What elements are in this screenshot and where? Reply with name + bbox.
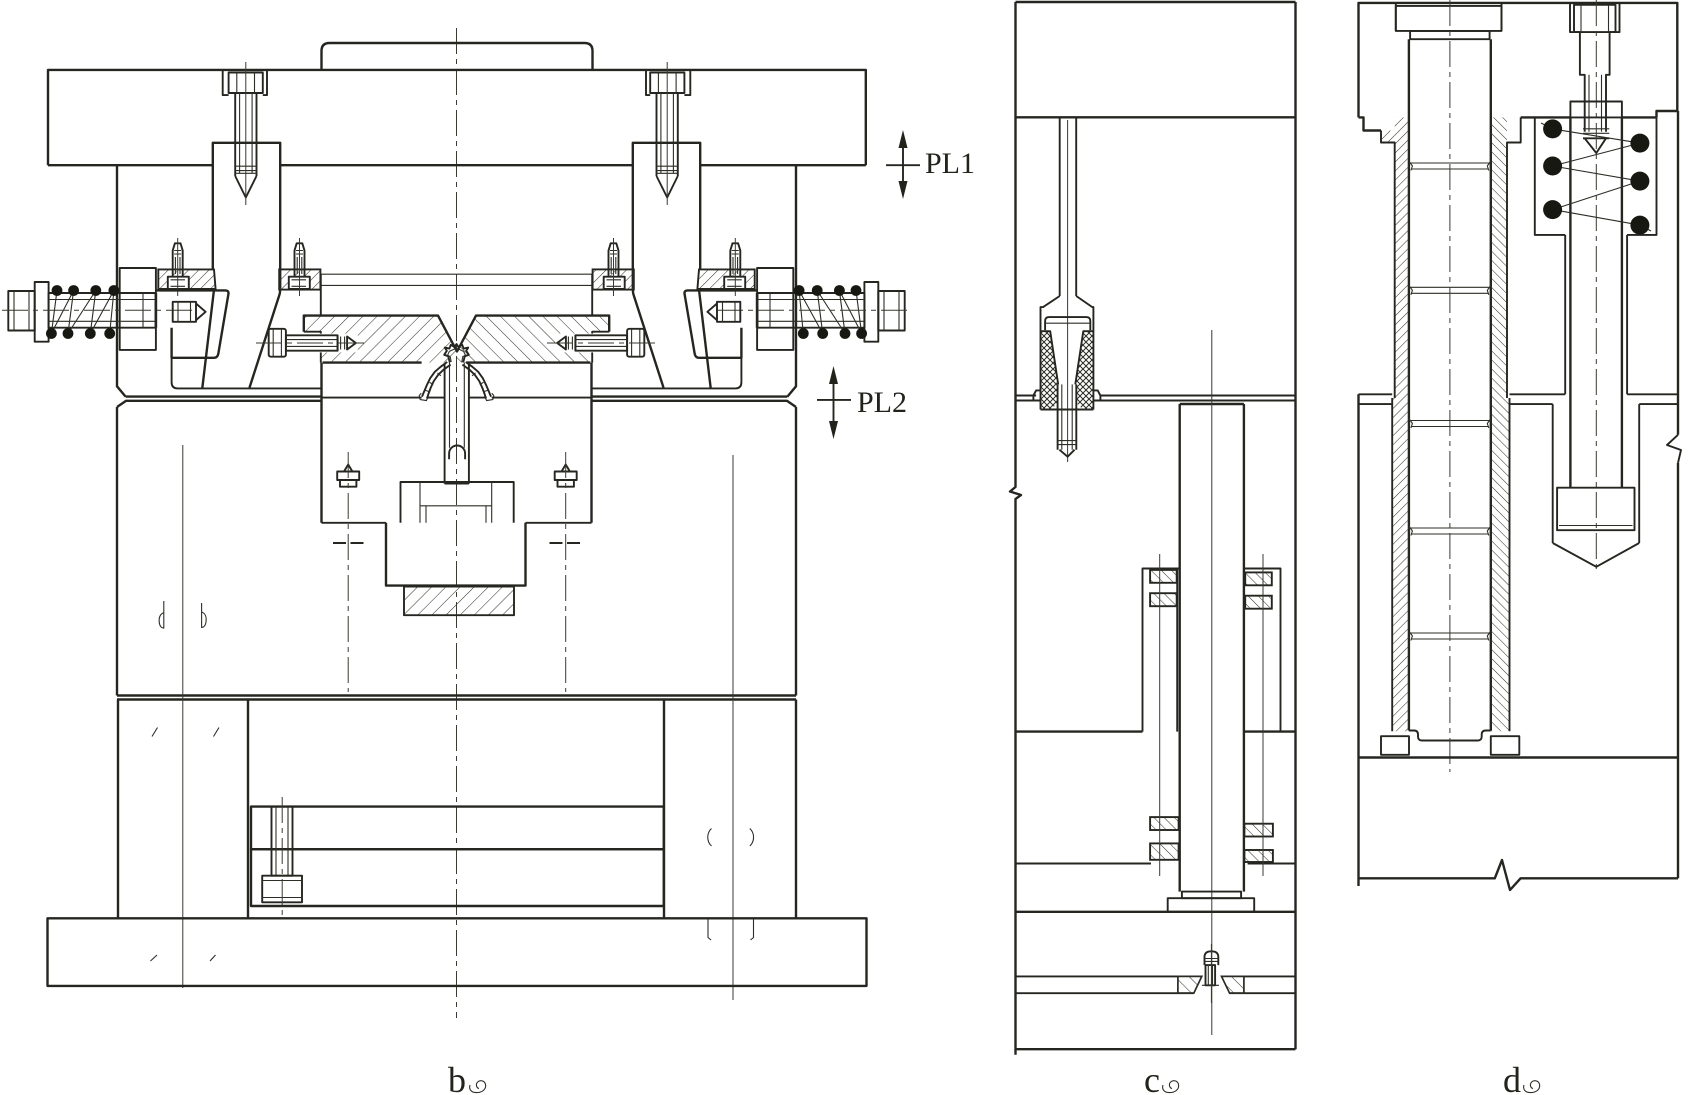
bolt head pocket d xyxy=(1570,3,1620,32)
molded part left wing xyxy=(422,362,451,398)
puller bolt head xyxy=(1574,5,1616,32)
spring d dots xyxy=(1543,119,1562,138)
ejector retainer plate xyxy=(251,807,664,850)
support screw left xyxy=(337,465,359,487)
sprue puller housing shoulders xyxy=(1041,296,1094,410)
pillar centerline xyxy=(1449,0,1451,772)
clamp screw left shank xyxy=(286,335,338,350)
spring rod right centerline xyxy=(717,309,911,311)
base angle marks right xyxy=(708,920,754,941)
view c outer left edge with break xyxy=(1010,2,1021,1055)
bush ring c6 xyxy=(1150,843,1179,859)
set pin P1 pocket xyxy=(168,277,189,289)
stop screw head xyxy=(1205,951,1219,965)
guided dashes right xyxy=(550,542,581,544)
screw hole clearance left xyxy=(304,334,358,353)
pillar joint 3 xyxy=(1409,419,1491,429)
svg-text:PL2: PL2 xyxy=(857,386,907,419)
cavity plate outline xyxy=(304,316,609,352)
upper mold plate A left edge xyxy=(117,165,126,396)
support pillar c xyxy=(1180,404,1244,892)
bush ring c1 xyxy=(1150,570,1177,583)
top clamp plate xyxy=(48,70,866,165)
spring rod left flange xyxy=(35,282,49,342)
bush ring c7 xyxy=(1244,824,1273,837)
pocket floor left xyxy=(172,358,321,389)
wedge cam left lower xyxy=(202,288,280,388)
wedge cam right upper xyxy=(633,143,700,289)
ejector base plate xyxy=(251,849,664,906)
puller flange left xyxy=(1033,390,1040,400)
core insert upper xyxy=(401,482,514,523)
sleeve body d xyxy=(1570,117,1622,487)
rail paren marks right xyxy=(708,829,754,847)
center line view b xyxy=(456,28,458,1018)
runner pin xyxy=(1060,117,1077,296)
guide pillar head xyxy=(1396,6,1502,31)
hatched rail strip L2 xyxy=(279,269,320,289)
pillar bottom cup xyxy=(1409,731,1491,741)
bolt centerline xyxy=(1595,0,1597,573)
pillar foot flange xyxy=(1168,898,1255,912)
set pin P4 pocket xyxy=(724,277,745,289)
bushing wall right hatched xyxy=(1491,117,1521,731)
pocket floor right xyxy=(592,358,741,389)
d right edge upper xyxy=(1677,111,1679,435)
bush ring c3 xyxy=(1245,572,1272,585)
bushing foot right xyxy=(1491,736,1520,755)
spring d coils xyxy=(1541,123,1651,231)
bush ring c2 xyxy=(1150,593,1177,606)
puller lower pin xyxy=(1058,384,1077,449)
B plate left edge xyxy=(116,407,118,696)
cap bolt B2 shank xyxy=(657,93,678,176)
cap bolt B1 shank xyxy=(235,93,256,176)
pillar head pocket xyxy=(1396,3,1502,31)
bushing wall left hatched xyxy=(1392,117,1409,731)
lock pin left xyxy=(173,302,196,322)
puller flange right xyxy=(1093,390,1100,400)
spring rod right body xyxy=(758,293,865,328)
bush ring c5 xyxy=(1150,817,1179,830)
svg-text:c: c xyxy=(1144,1060,1160,1095)
puller pin tip xyxy=(1059,450,1074,457)
core retainer block sides xyxy=(322,363,592,523)
stop pad left xyxy=(1178,976,1202,993)
bolt nut foot xyxy=(1557,488,1634,531)
cap bolt B1 head xyxy=(229,73,263,94)
bottom clamp plate xyxy=(48,918,867,986)
wedge cam right lower xyxy=(633,288,711,388)
view c top edge xyxy=(1016,1,1296,3)
seam parting xyxy=(1016,396,1296,401)
support screw right xyxy=(555,465,577,487)
z puller arc xyxy=(449,446,465,460)
section line right xyxy=(732,455,734,1000)
bolt pocket left xyxy=(223,70,267,95)
pillar joint 5 xyxy=(1409,631,1491,641)
seam base mid xyxy=(1016,992,1296,994)
puller bolt tip cone xyxy=(1583,138,1609,153)
spring rod left centerline xyxy=(2,309,196,311)
set pin P3 pocket xyxy=(604,277,625,289)
bore wall d lower xyxy=(1553,404,1640,543)
guided dashes left xyxy=(333,542,364,544)
wedge cam left upper xyxy=(213,143,280,289)
seam B bottom xyxy=(1016,730,1296,732)
A plate bottom line xyxy=(126,395,788,397)
cap bolt B2 tip xyxy=(657,176,678,198)
clamp screw right head xyxy=(627,329,644,357)
sprue hole walls xyxy=(445,365,469,484)
molded part crown xyxy=(444,344,469,362)
bush centerline left xyxy=(1159,554,1161,876)
svg-text:b: b xyxy=(448,1060,466,1095)
side spring block left xyxy=(120,268,156,350)
sprue puller taper socket crosshatch left xyxy=(1041,331,1059,409)
bushing foot left xyxy=(1381,736,1409,755)
puller bolt shank xyxy=(1580,32,1610,132)
guide bush plate left xyxy=(1143,569,1180,732)
d mid seam xyxy=(1359,756,1679,758)
cavity pocket walls xyxy=(321,274,592,315)
cavity plate hatched left xyxy=(304,316,457,363)
spring pocket d xyxy=(1535,117,1657,234)
locating ring boss xyxy=(322,43,593,70)
spring rod right hex head xyxy=(878,291,904,331)
set pin P2 xyxy=(295,243,305,276)
hatched rail strip R1 xyxy=(697,269,754,289)
d right edge break xyxy=(1667,435,1681,463)
core insert lower xyxy=(386,523,526,586)
set pin P4 xyxy=(730,243,740,276)
spring left coils xyxy=(51,291,114,334)
taper outline xyxy=(1041,331,1094,384)
d left edge xyxy=(1357,394,1359,886)
spring right coils xyxy=(799,291,862,334)
bore wall d upper xyxy=(1565,235,1627,394)
bore drill cone xyxy=(1553,543,1640,567)
B plate right edge xyxy=(795,407,797,696)
stripper block seam xyxy=(322,397,592,399)
set pin P1 xyxy=(173,243,183,276)
bushing wall right outline xyxy=(1507,117,1521,731)
view c bottom edge xyxy=(1016,1048,1296,1050)
clamp screw left head xyxy=(269,329,286,357)
bush centerline right xyxy=(1262,554,1264,876)
guide pillar body xyxy=(1409,39,1491,730)
seam ejector bottom xyxy=(1016,911,1296,913)
base tick marks left xyxy=(151,955,216,961)
d seam A xyxy=(1359,393,1679,395)
section line left xyxy=(182,445,184,988)
spring rod left hex head xyxy=(8,291,34,331)
d top plate bottom xyxy=(1359,117,1657,130)
riser rail left xyxy=(118,700,248,919)
cap bolt B1 tip xyxy=(235,176,256,198)
pillar joint 1 xyxy=(1409,161,1491,171)
sprue stem xyxy=(450,363,465,448)
slide right xyxy=(684,290,757,357)
hatched rail strip L1 xyxy=(158,269,215,289)
mark d glyph xyxy=(159,601,164,629)
svg-text:d: d xyxy=(1503,1060,1521,1095)
spring rod right flange xyxy=(864,282,878,342)
cavity plate hatched right xyxy=(457,316,609,363)
PL2 arrow xyxy=(833,384,835,421)
cavity plate bottom edge xyxy=(323,361,591,363)
cap bolt B2 head xyxy=(650,73,684,94)
bushing wall left outline xyxy=(1381,131,1395,732)
pillar joint 4 xyxy=(1409,526,1491,536)
sprue puller cap xyxy=(1045,317,1090,330)
bolt pocket right xyxy=(646,70,690,95)
hatched rail strip R2 xyxy=(593,269,634,289)
rail tick marks left xyxy=(152,728,219,737)
sprue puller taper socket crosshatch right xyxy=(1075,331,1093,409)
svg-text:PL1: PL1 xyxy=(925,147,975,180)
mark b glyph xyxy=(202,603,207,628)
d bottom block bottom edge with break xyxy=(1359,860,1679,890)
stop screw shank xyxy=(1206,965,1216,985)
seam base top xyxy=(1016,975,1296,977)
seam top plate xyxy=(1016,116,1296,118)
view c outer right edge xyxy=(1294,2,1296,1049)
B plate bottom xyxy=(117,696,796,700)
riser rail right xyxy=(664,700,796,919)
ejector bolt head xyxy=(262,876,302,903)
pillar foot step xyxy=(1182,892,1241,899)
bush ring c4 xyxy=(1245,596,1272,609)
side spring block right xyxy=(757,268,793,350)
ejector bolt shank xyxy=(272,807,293,876)
screw hole clearance right xyxy=(555,334,609,353)
stop pad right xyxy=(1222,976,1244,993)
slide left xyxy=(156,290,229,357)
B plate top xyxy=(117,401,796,407)
clamp screw right shank xyxy=(575,335,627,350)
upper mold plate A right edge xyxy=(787,165,796,396)
pillar joint 2 xyxy=(1409,285,1491,295)
d right edge lower xyxy=(1677,463,1679,878)
set pin P2 pocket xyxy=(289,277,310,289)
lock pin right xyxy=(717,302,740,322)
seam ejector top xyxy=(1016,863,1296,865)
set pin P3 xyxy=(609,243,619,276)
guide pillar collar xyxy=(1410,31,1490,39)
d top plate xyxy=(1359,3,1678,118)
bush ring c8 xyxy=(1244,850,1273,862)
guide bush plate right xyxy=(1244,569,1281,732)
A plate inner seams xyxy=(321,274,592,285)
molded part right wing xyxy=(462,362,491,398)
d seam B xyxy=(1359,403,1679,405)
spring rod left body xyxy=(49,293,156,328)
PL1 arrow xyxy=(902,148,904,181)
core retainer block bottom xyxy=(322,522,592,524)
core heel block hatched xyxy=(404,587,514,616)
sleeve flange d xyxy=(1570,102,1622,118)
